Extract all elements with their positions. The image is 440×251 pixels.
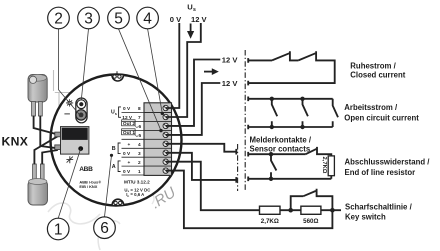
svg-text:2: 2 [54,11,63,28]
svg-text:Closed current: Closed current [350,71,405,80]
svg-text:0 V: 0 V [123,151,131,157]
svg-text:6: 6 [139,124,142,130]
svg-text:4: 4 [138,142,141,148]
svg-text:Scharfschaltlinie /: Scharfschaltlinie / [345,203,413,212]
svg-text:Melderkontakte /: Melderkontakte / [250,136,312,145]
svg-text:Ruhestrom /: Ruhestrom / [350,61,396,70]
svg-text:5: 5 [114,11,123,28]
svg-text:8: 8 [138,106,141,112]
svg-text:0 V: 0 V [123,169,131,175]
svg-text:4: 4 [143,11,152,28]
svg-text:1: 1 [138,169,141,175]
svg-text:Open circuit current: Open circuit current [344,113,419,122]
svg-text:s: s [193,7,196,13]
svg-text:A: A [112,164,116,170]
svg-text:B: B [112,146,116,152]
svg-text:12 V: 12 V [122,115,133,121]
svg-text:7: 7 [138,115,141,121]
svg-text:3: 3 [138,151,141,157]
svg-text:Sensor contacts: Sensor contacts [250,145,311,154]
svg-text:s: s [115,112,117,116]
svg-text:Abschlusswiderstand /: Abschlusswiderstand / [345,158,431,167]
svg-text:In = 0,6 A: In = 0,6 A [126,192,144,198]
svg-text:EIB / KNX: EIB / KNX [79,184,97,189]
svg-text:KNX: KNX [2,135,29,149]
svg-text:0 V: 0 V [170,15,182,24]
svg-text:12 V: 12 V [191,15,208,24]
svg-text:Key switch: Key switch [345,213,386,222]
svg-text:ABB: ABB [79,166,93,173]
svg-text:6: 6 [100,220,109,237]
svg-text:12 V: 12 V [222,79,239,88]
svg-text:2: 2 [138,160,141,166]
svg-text:5: 5 [139,133,142,139]
svg-text:2,7KΩ: 2,7KΩ [321,157,327,174]
svg-text:560Ω: 560Ω [303,218,318,225]
svg-text:3: 3 [84,11,93,28]
svg-text:+: + [128,161,131,166]
svg-text:12 V: 12 V [222,56,239,65]
svg-text:1: 1 [54,222,63,239]
svg-text:End of line resistor: End of line resistor [345,168,416,177]
svg-text:0 V: 0 V [123,106,131,112]
svg-text:MT/U 3.12.2: MT/U 3.12.2 [124,180,150,185]
svg-text:Arbeitsstrom /: Arbeitsstrom / [344,103,398,112]
svg-text:2,7KΩ: 2,7KΩ [261,218,279,225]
svg-text:+: + [128,143,131,148]
